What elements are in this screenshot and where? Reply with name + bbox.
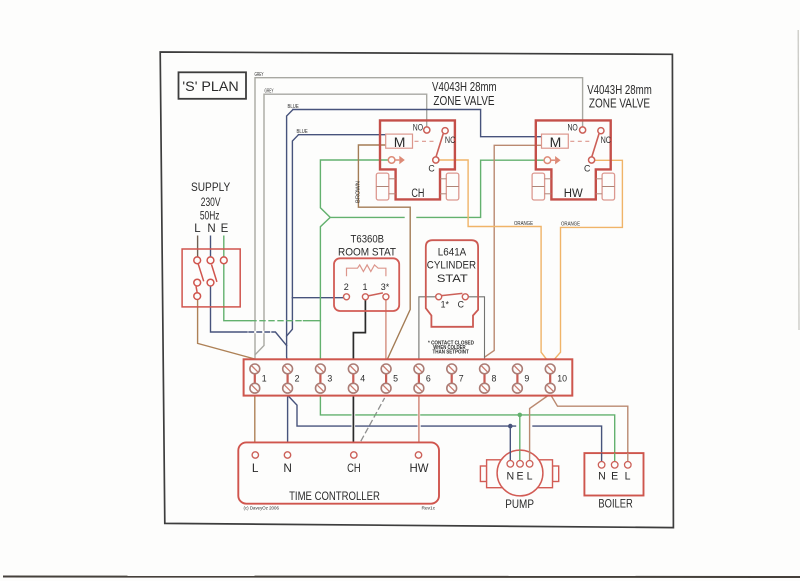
svg-text:'S' PLAN: 'S' PLAN [182, 79, 238, 94]
svg-text:NC: NC [601, 135, 612, 145]
HW valve dashed link [570, 140, 592, 142]
wire: supply E green to terminal 3 [224, 264, 251, 321]
svg-text:N: N [506, 470, 514, 482]
room stat terminal 1 [362, 294, 368, 300]
HW valve switch lever C-NC [592, 134, 599, 157]
wire: room stat 1 black to terminal 4 [353, 300, 365, 364]
wire: terminal 1 to controller L [254, 393, 256, 452]
HW valve earth motor symbol [544, 157, 551, 164]
cylinder stat L641A body [426, 240, 478, 327]
svg-text:M: M [550, 134, 562, 150]
wire: supply N to junction A [211, 286, 287, 346]
svg-text:4: 4 [360, 374, 365, 384]
svg-text:10: 10 [557, 374, 567, 384]
svg-text:V4043H 28mm: V4043H 28mm [587, 83, 652, 97]
svg-text:TIME CONTROLLER: TIME CONTROLLER [289, 489, 380, 503]
cylinder stat switch lever [442, 293, 463, 295]
svg-text:ZONE VALVE: ZONE VALVE [589, 97, 650, 111]
wire: CH valve brown (M box to terminal 5) [358, 145, 410, 362]
CH valve earth motor symbol [388, 157, 395, 164]
room stat terminal 3* [383, 294, 389, 300]
svg-text:C: C [584, 163, 591, 173]
svg-text:V4043H 28mm: V4043H 28mm [432, 80, 497, 94]
terminal 8 [480, 364, 497, 393]
supply contact circles [194, 257, 201, 264]
pump terminal L [526, 461, 533, 468]
svg-text:E: E [221, 223, 229, 235]
svg-text:PUMP: PUMP [505, 498, 534, 511]
svg-text:ORANGE: ORANGE [514, 221, 533, 227]
HW valve contact NC [598, 128, 604, 134]
wire: terminal 6 to controller HW [418, 393, 420, 452]
CH valve foot left [376, 173, 389, 200]
cylinder stat terminal C [462, 294, 468, 300]
switch link L fuse [196, 286, 197, 293]
wire: cylinder stat 1* to terminal 6 [419, 297, 436, 364]
svg-text:9: 9 [524, 374, 529, 384]
terminals 1-10 [250, 364, 567, 393]
time controller terminal L [252, 452, 258, 458]
terminal 7 [447, 364, 464, 393]
svg-text:SUPPLY: SUPPLY [191, 180, 230, 194]
wire: terminal 2 to controller N [287, 393, 289, 452]
wire: orange CH valve C to terminal 10 [439, 160, 550, 364]
supply terminal labels L N E [194, 223, 228, 235]
HW valve foot left [532, 173, 545, 200]
time controller terminal CH [351, 452, 357, 458]
svg-text:230V: 230V [201, 195, 221, 209]
supply text [191, 180, 230, 223]
scan bottom edge line [3, 576, 800, 579]
svg-text:BOILER: BOILER [598, 498, 632, 511]
wire: earth bus terminal 3 to pump and boiler [320, 393, 351, 415]
wire: neutral bus terminal 2 to pump and boiler [288, 396, 351, 427]
wire: pump N entry [509, 451, 511, 461]
wire: navy vertical A (blue1 down to terminal 2) [287, 110, 293, 365]
terminal 5 [381, 364, 398, 393]
pump terminal E [517, 461, 524, 468]
wire: supply E lead-in [223, 236, 225, 258]
diagram border frame [160, 52, 673, 528]
junction dot: pump N [508, 424, 513, 429]
room stat anticipator resistor [347, 265, 386, 276]
wire: terminal 4 to controller CH black [352, 393, 354, 452]
wire: orange HW valve C to terminal 10 [550, 160, 622, 364]
time controller terminal HW [415, 452, 421, 458]
CH valve contact NO [424, 127, 430, 133]
svg-text:E: E [516, 470, 523, 482]
wire: pump E entry [519, 450, 521, 460]
pump terminal N [507, 461, 514, 468]
svg-text:3: 3 [327, 374, 332, 384]
boiler terminal L [625, 462, 632, 469]
boiler terminal N [598, 462, 605, 469]
svg-text:HW: HW [410, 461, 430, 475]
svg-text:50Hz: 50Hz [200, 209, 220, 223]
svg-text:BLUE: BLUE [297, 129, 308, 135]
svg-text:7: 7 [459, 374, 464, 384]
room stat T6360B box [334, 258, 399, 311]
svg-text:C: C [428, 163, 435, 173]
svg-text:E: E [611, 470, 618, 482]
pump body [480, 450, 558, 496]
wire: grey 1 (T1 to HW valve NO) [255, 78, 583, 364]
zone valve HW body [536, 120, 611, 199]
CH valve foot right [446, 173, 459, 200]
HW valve contact C [589, 157, 595, 163]
time controller box [238, 442, 439, 503]
wire: navy to room stat 2 [292, 297, 343, 299]
boiler box [584, 453, 643, 495]
wire: cylinder stat C to terminal 8 [468, 297, 484, 364]
svg-text:BLUE: BLUE [288, 104, 299, 110]
CH valve contact C [433, 157, 439, 163]
wire: pump L entry [529, 451, 531, 461]
svg-text:(c) DaveyOz 2006: (c) DaveyOz 2006 [244, 506, 280, 511]
CH valve dashed link [415, 140, 437, 142]
CH valve switch lever C-NC [436, 134, 443, 157]
svg-text:5: 5 [393, 374, 398, 384]
time controller terminal labels [252, 461, 429, 475]
cylinder stat terminal 1* [436, 294, 442, 300]
svg-text:L: L [625, 470, 631, 482]
svg-text:2: 2 [344, 282, 349, 292]
wire: supply L brown to terminal 1 [198, 300, 255, 365]
svg-text:1*: 1* [441, 300, 450, 310]
svg-text:C: C [458, 300, 465, 310]
wire: live terminal 10 to boiler L [550, 394, 628, 462]
pump circle [497, 450, 543, 496]
terminal 3 [316, 364, 333, 393]
svg-text:2: 2 [295, 374, 300, 384]
svg-text:L: L [194, 223, 201, 235]
wire: pump N drop [509, 426, 511, 461]
wire: HW valve brown (M box to terminal 8) [485, 145, 541, 357]
wire: green earth to HW valve motor [330, 160, 544, 217]
svg-text:GREY: GREY [265, 89, 274, 95]
room stat switch lever 1-3 [368, 293, 383, 296]
supply isolator switch box [182, 249, 240, 307]
terminal 10 [545, 364, 567, 393]
wire: supply L lead-in [197, 236, 199, 258]
terminal 6 [414, 364, 431, 393]
title box 'S' PLAN [179, 72, 247, 99]
switch lever L [198, 264, 204, 281]
svg-text:1: 1 [262, 374, 267, 384]
room stat terminal 2 [344, 294, 350, 300]
svg-text:N: N [598, 470, 606, 482]
svg-text:GREY: GREY [255, 72, 264, 78]
HW valve foot right [602, 173, 615, 200]
switch lever N [212, 265, 217, 282]
scan right edge line [797, 30, 800, 330]
boiler terminal E [611, 462, 618, 469]
svg-text:HW: HW [564, 188, 583, 200]
svg-text:6: 6 [426, 374, 431, 384]
svg-text:8: 8 [492, 374, 497, 384]
wire: boiler L entry [627, 453, 629, 461]
wire: supply N dashes over greys [249, 331, 270, 334]
svg-text:BROWN: BROWN [356, 181, 362, 203]
wire: dashed link controller CH to terminal 5 [357, 399, 385, 449]
terminal 2 [283, 364, 300, 393]
svg-text:THAN SETPOINT: THAN SETPOINT [432, 350, 468, 356]
svg-text:N: N [283, 461, 292, 475]
svg-text:NO: NO [567, 122, 577, 132]
svg-text:ZONE VALVE: ZONE VALVE [433, 94, 494, 108]
wire: pump E drop [519, 415, 521, 461]
svg-text:CYLINDER: CYLINDER [427, 260, 476, 272]
svg-text:ROOM STAT: ROOM STAT [338, 247, 396, 259]
terminal 9 [513, 364, 530, 393]
CH valve motor box M [386, 134, 413, 148]
wire: boiler N entry [601, 453, 603, 461]
svg-text:ORANGE: ORANGE [561, 222, 580, 228]
svg-text:T6360B: T6360B [351, 234, 385, 246]
svg-text:L641A: L641A [438, 246, 467, 258]
wire: grey 2 (T1 to CH valve NO) [255, 94, 426, 354]
wire: blue 1 (to HW valve M) [293, 110, 541, 137]
svg-text:L: L [252, 461, 259, 475]
wire: live terminal 10 to pump L [530, 394, 551, 461]
HW valve contact NO [580, 127, 586, 133]
wire: blue 2 (to CH valve M) [299, 134, 386, 136]
zone valve CH body [380, 120, 455, 199]
svg-text:L: L [527, 470, 533, 482]
wire: green earth to CH valve motor [320, 160, 388, 321]
svg-text:CH: CH [411, 188, 424, 200]
svg-text:N: N [207, 223, 215, 235]
svg-text:STAT: STAT [437, 273, 468, 285]
wire: navy vertical B (blue2 branch) [287, 135, 299, 336]
HW valve motor box M [542, 134, 569, 148]
terminal 4 [348, 364, 365, 393]
CH valve contact NC [442, 128, 448, 134]
wire: room stat 3* to terminal 5 [385, 300, 387, 364]
wire: supply N lead-in [210, 236, 212, 258]
time controller terminal N [284, 452, 290, 458]
svg-text:NO: NO [413, 122, 423, 132]
svg-text:1: 1 [362, 282, 367, 292]
wire: boiler E entry [614, 453, 616, 461]
svg-text:Rev1c: Rev1c [422, 506, 436, 512]
svg-text:NC: NC [445, 135, 456, 145]
junction dot: pump E [518, 413, 523, 418]
terminal strip box [244, 359, 573, 395]
svg-text:M: M [394, 134, 406, 150]
cylinder stat contact note [428, 340, 474, 355]
terminal 1 [250, 364, 267, 393]
svg-text:3*: 3* [381, 282, 390, 292]
svg-text:CH: CH [347, 461, 361, 475]
